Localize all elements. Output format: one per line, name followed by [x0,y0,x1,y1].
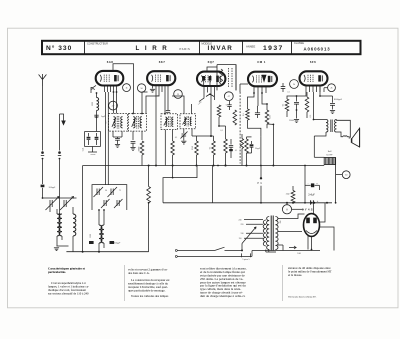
svg-text:0,25: 0,25 [270,115,272,118]
wire coils to ground bus [56,236,58,246]
tube V2 6K7 [147,71,175,85]
pins V5 [305,85,307,92]
dial lamp circle g [328,84,336,92]
pins V2 [155,85,157,92]
wire V4 left feed [240,83,248,85]
tube V1 6A8 [96,71,124,86]
cap coupling 6F6 [296,96,298,102]
wire HT centre tap [278,244,284,246]
junction dot PU [260,137,262,166]
svg-text:220: 220 [241,224,244,226]
wire V2 anode to T3 [164,92,166,114]
antenna coil L3 [59,214,62,236]
svg-text:particularités.: particularités. [48,270,66,274]
wire circle c [112,92,114,101]
junction [311,249,313,251]
svg-text:ANNEE: ANNEE [246,45,255,49]
cap under T1 [115,138,120,140]
AVC filter box [85,132,101,147]
earth terminal [58,151,61,154]
mains terminals [175,249,177,251]
capacitor antenna series [41,185,45,188]
junction [42,197,44,199]
output transformer T5 [326,120,328,133]
IF transformer T1 (can) [109,114,128,132]
junction [116,91,118,93]
diode load resistor [219,69,222,84]
svg-text:5 Y 4 S: 5 Y 4 S [302,208,313,212]
header divider [242,41,244,54]
header box [42,41,361,54]
svg-text:5000: 5000 [92,102,94,106]
trimmer 3 [103,200,105,206]
resistor grid 6F6 [285,99,289,111]
pickup terminals [260,166,262,179]
svg-text:masse: masse [91,154,96,156]
svg-text:6K7: 6K7 [159,60,166,64]
antenna [39,74,47,86]
wire det top [219,125,226,127]
mains tap 240 [244,219,263,221]
mains switch line live [178,249,216,251]
resistor detector [217,105,221,117]
wire earth to coil block [59,160,61,215]
capacitor C3 mica [96,133,98,137]
svg-text:2×8μF: 2×8μF [308,194,315,197]
resistor AVC chain [245,139,249,153]
capacitor mica blobs [89,241,94,244]
junction [292,202,294,204]
top wire V3 to detector box [207,67,217,72]
top wire V1 to V2 [113,64,134,114]
dial lamp circle d [174,90,183,99]
svg-text:CONSTRUCTEUR: CONSTRUCTEUR [87,43,108,46]
screen cap V2 [166,110,170,112]
grid return V2 [152,85,154,88]
svg-text:0,1: 0,1 [287,92,289,94]
variable capacitor CV1 section1 [49,200,51,207]
mains switch line neutral [178,255,253,257]
resistor ac shunt 2 [240,139,243,149]
junction [59,213,61,215]
svg-text:2kΩ: 2kΩ [286,194,290,196]
wire L1 top [96,93,98,98]
mains plug ticks [241,253,243,257]
svg-text:6F6: 6F6 [310,60,316,64]
svg-text:50μμF: 50μμF [255,148,260,150]
capacitor C2 mica [88,133,90,137]
wire OT secondary to speaker [337,120,351,138]
resistor screen 6F6 [305,97,309,112]
svg-text:INVAR: INVAR [208,45,234,52]
svg-text:2k: 2k [330,87,332,89]
svg-text:-: - [308,182,309,185]
wire choke top [323,156,325,158]
wire rectifier output [320,203,326,222]
resistor R detector load [212,141,216,155]
svg-text:5μμF: 5μμF [101,116,105,118]
ground under cap [296,110,298,119]
junction [132,113,134,115]
IF transformer T4 (can) [180,114,196,129]
svg-text:6A8: 6A8 [107,60,114,64]
wire T2 risers [141,95,143,114]
wire screen bracket [163,166,197,203]
wire antenna to coupling cap [42,160,44,185]
wire choke down [335,165,337,203]
wire rails link [212,166,214,203]
svg-text:110: 110 [239,238,242,240]
svg-text:50000: 50000 [138,147,140,152]
cap under T2 [131,141,136,143]
svg-text:1k: 1k [125,87,127,89]
svg-text:0,1: 0,1 [175,137,177,139]
junction [261,92,263,94]
wire CV1 to coils [49,207,51,212]
wire V3 grid leak [199,93,204,102]
wire circle h [336,174,343,176]
tube V3 6Q7 [197,72,225,86]
wire V2 pin drop 1 [155,92,157,166]
rail HT right [304,166,306,203]
resistor decoupling [147,187,151,203]
svg-text:ques particularités de montage: ques particularités de montage. [128,289,166,293]
svg-text:0,5: 0,5 [243,113,245,115]
resistor bias 2k [291,191,295,203]
cap tone [332,96,334,103]
svg-text:0,5: 0,5 [310,115,312,117]
pins V1 [104,86,106,93]
volume control resistor [195,141,199,155]
eye target wedge [262,75,267,83]
dial lamp circle f [290,80,299,89]
rectifier anodes [306,218,310,224]
wire antenna lead [42,86,44,151]
cap det 5pF [227,104,231,106]
svg-text:5 prise 5: 5 prise 5 [242,258,249,261]
text column divider 1 [124,265,126,301]
junction [253,92,255,94]
wire V1 pin to oscillator 2 [107,92,109,185]
junction [98,209,100,211]
svg-text:CM 1: CM 1 [257,60,266,64]
svg-text:des dans une C.G.: des dans une C.G. [128,271,150,275]
grid cap V1 [91,85,96,93]
svg-text:M.F.: M.F. [105,120,107,124]
bottom bus power [252,250,320,252]
svg-text:50: 50 [105,190,107,192]
detector box [217,65,236,91]
wire eye right drop [266,124,268,128]
wire avc rail riser [82,166,84,252]
svg-text:et la masse.: et la masse. [288,273,302,277]
svg-text:C.A.: C.A. [82,147,85,151]
wire HT to anodes [278,214,305,219]
oscillator coil L5 [101,225,104,243]
svg-text:A: A [286,207,288,211]
wire transformer bottom [265,250,267,253]
coil core [59,215,61,235]
svg-text:Voir la note dans le schéma 30: Voir la note dans le schéma 307. [288,296,317,298]
wire T3 bottom drops [164,130,166,166]
wire T4 right drop [191,129,193,136]
tap selector arrow [242,227,256,244]
wire V4 bias drop [246,160,248,166]
wire chain bottoms [247,136,252,138]
mains tap 130 [246,232,263,234]
pins V4 [253,86,255,93]
svg-text:25000: 25000 [289,120,294,122]
junction [313,119,315,121]
svg-text:Toutes les cathodes des lampes: Toutes les cathodes des lampes [131,294,169,298]
oscillator coil core [101,226,103,242]
oscillator pad coil [73,214,76,236]
speaker voice coil [343,136,349,139]
rail main HT [163,202,332,204]
resistor det chain [233,110,237,125]
ground tuning block [54,247,59,249]
svg-text:500μμF: 500μμF [49,187,56,189]
wire OT primary [314,119,327,121]
junction [273,124,275,126]
svg-text:Self: Self [328,151,332,153]
dial lamp circle c [109,101,118,110]
header divider [291,41,293,54]
svg-text:PARIS: PARIS [180,47,191,51]
svg-text:250μμF: 250μμF [114,243,121,245]
junction [141,113,143,115]
shield dashed boundary [239,92,241,164]
header divider [199,41,201,54]
resistor under T2 [140,141,144,155]
cap top small [281,86,286,88]
text column divider 2 [282,265,284,301]
svg-text:5: 5 [226,104,227,106]
wire cap to coil block [42,188,44,198]
rail bottom left [66,251,148,253]
resistor eye load [265,110,269,124]
pins V3 [203,86,205,93]
svg-text:6Q7: 6Q7 [208,60,215,64]
rectifier filament [306,231,317,234]
trimmer under T4 [182,133,187,135]
svg-text:sur secteur alternatif de 110: sur secteur alternatif de 110 à 240 [48,292,89,296]
cap padding small [94,114,98,116]
tube V4 EM1 tuning indicator [248,72,277,87]
svg-text:8000μμF: 8000μμF [334,99,343,101]
wire det coupling [197,135,214,137]
antenna terminal [41,151,44,154]
svg-text:LIRR: LIRR [136,45,173,52]
junction [103,209,105,211]
tube V5 6F6 [300,71,328,85]
pilot lamp circle A [282,205,291,214]
resistor under T3 [171,141,175,155]
wire circle g [319,85,321,87]
svg-text:N° 330: N° 330 [46,44,72,52]
svg-text:0,5: 0,5 [282,104,284,106]
wire AVC down [92,147,94,153]
svg-text:fer HP: fer HP [327,153,334,156]
diode plates 6Q7 [202,76,205,81]
svg-text:A0606013: A0606013 [304,47,331,52]
svg-text:100: 100 [157,96,160,98]
header divider [84,41,86,54]
junction [296,109,298,111]
svg-text:P U: P U [257,182,262,185]
svg-text:240: 240 [239,220,242,222]
svg-text:1937: 1937 [263,45,284,52]
wire V2 grid to T2 [146,92,159,114]
svg-text:0,1: 0,1 [235,150,237,152]
junction L1 bottom [96,111,98,132]
earth lead [59,114,61,151]
svg-text:2k: 2k [293,84,295,86]
cap eye [257,93,259,112]
junction [96,92,98,94]
svg-text:0,5: 0,5 [209,147,211,149]
resistor R ac shunt [224,139,228,153]
mains tap 220 [246,223,263,225]
grid cap V3 [206,94,214,97]
IF transformer T2 (can) [129,114,147,132]
junction [217,165,219,167]
wire rectifier heater [307,236,309,250]
oscillator grid coil L1 [97,98,99,111]
cap AVC chain [251,141,253,144]
wire T4 bottom trimmer [183,129,185,133]
rail right segment [272,165,274,167]
antenna coil L2 [57,214,60,236]
rectifier tube 5Y4 [304,214,320,237]
svg-text:1500: 1500 [90,234,92,238]
power transformer core [270,216,272,251]
svg-text:T1: T1 [119,190,121,192]
resistor eye series [246,109,250,120]
dial lamp circle a [123,84,131,92]
junction [164,113,166,115]
svg-text:0,1: 0,1 [220,130,222,132]
power transformer secondary [275,217,278,250]
junction [218,125,220,127]
padder trimmer 2 [110,189,112,196]
wire T4 riser [183,100,185,114]
electrolytic C 2x8 top [305,184,311,186]
wire tap feed [241,244,243,251]
wire V3 anode drop [210,93,212,137]
svg-text:CLASSE: CLASSE [294,42,304,45]
mains tap 110 [244,237,263,239]
junction [113,91,115,93]
speaker cone [352,128,360,147]
svg-text:130: 130 [241,233,244,235]
wire eye staircase [248,120,261,137]
variable capacitor CV1 section2 [63,200,65,207]
variable capacitor CV1 frame [46,197,77,199]
electrolytic C 2x8 bottom [310,200,312,204]
junction [266,103,268,105]
cap ac shunt [230,139,232,145]
oscillator coil L4 [99,225,102,243]
svg-text:350: 350 [280,221,282,224]
wire T1 bottom drops [112,131,114,137]
dial lamp circle h [342,171,350,179]
earth arrow [60,114,64,121]
wire T2 bottom drops [132,131,134,140]
rail screen supply [83,165,325,167]
wire V1 anode to IF1 [113,92,115,114]
field coil choke [324,158,335,165]
power transformer primary [267,217,270,250]
svg-text:duit de charge identique à cel: duit de charge identique à celle-ci. [200,294,246,298]
trimmer 4 [116,200,118,206]
IF transformer T3 (can) [161,114,178,130]
wire lamp A to rectifier [292,208,304,210]
padder trimmer 1 [96,189,98,196]
wire lamp A [286,203,288,205]
dial lamp circle e [224,92,233,101]
wire V1 pin to oscillator [105,92,107,185]
wire osc coil junctions [98,243,100,252]
wire anode 6F6 [313,92,315,120]
dial lamp circle b [137,84,145,92]
oscillator box [92,185,127,210]
